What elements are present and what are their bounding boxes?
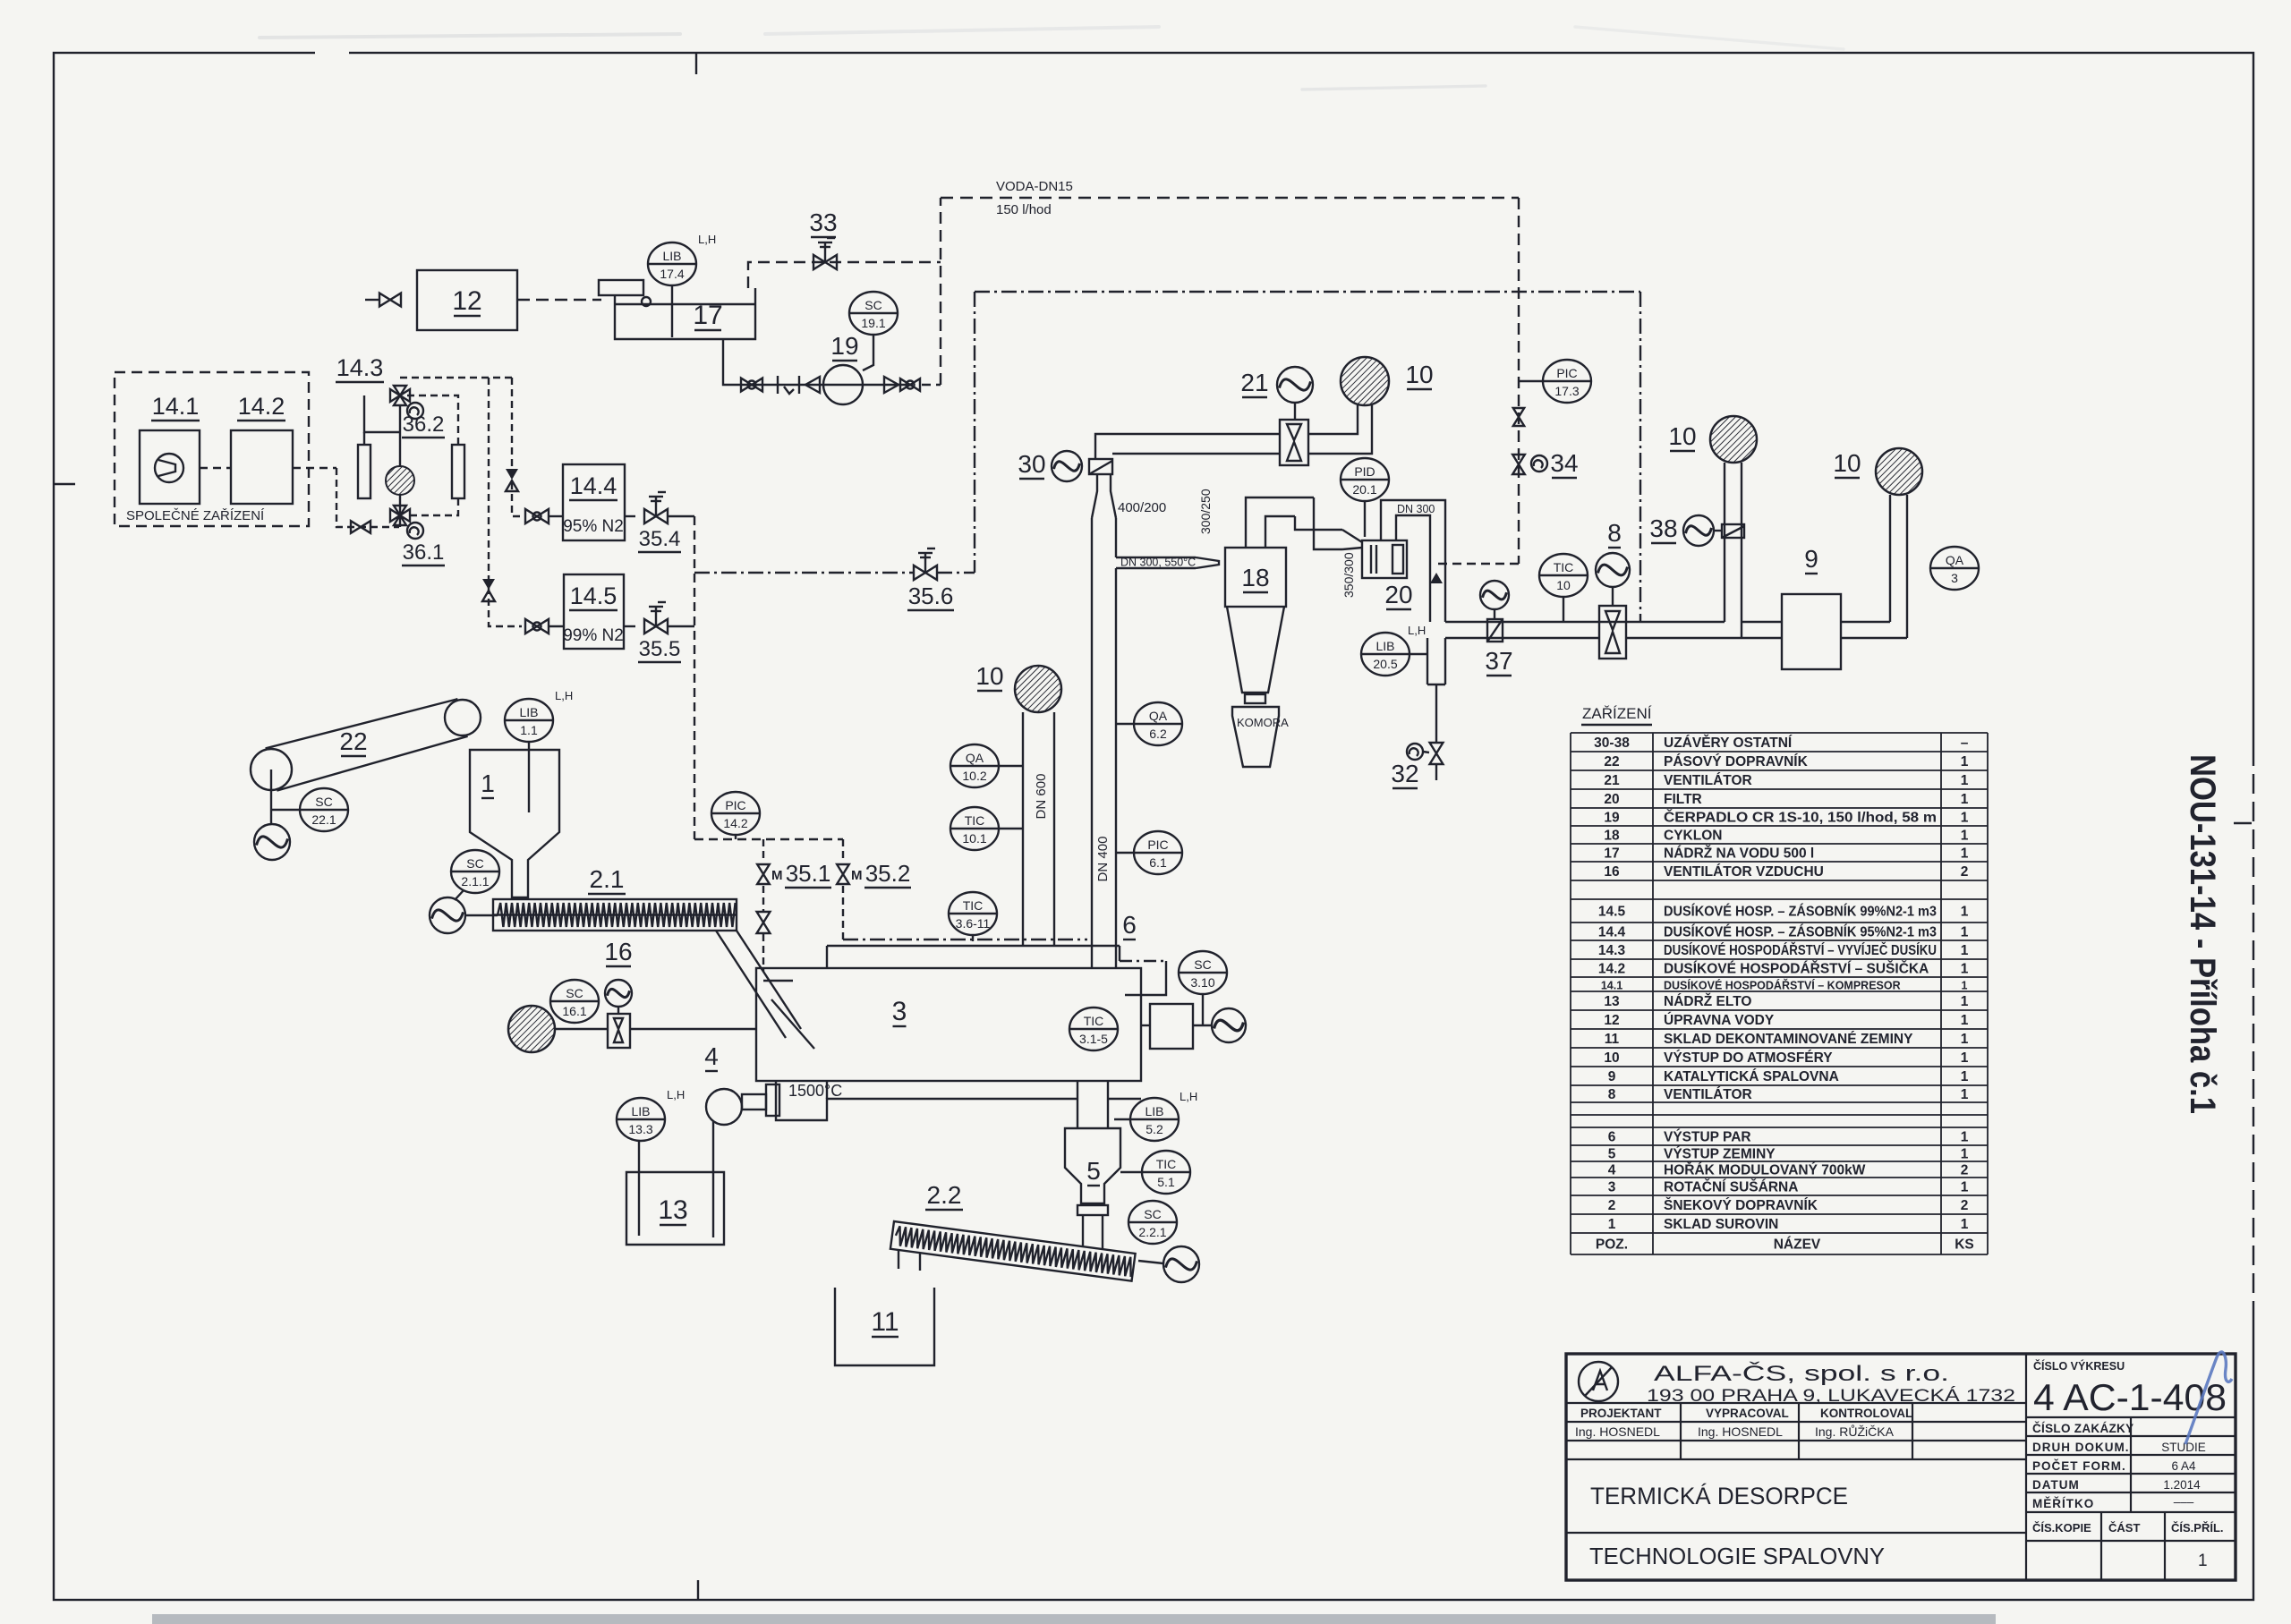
svg-text:19: 19 bbox=[1604, 811, 1620, 826]
label 10 (DN600) bbox=[975, 662, 1003, 691]
svg-text:4: 4 bbox=[704, 1042, 719, 1070]
instrument SC 3.10 (SC3.10) bbox=[1179, 951, 1227, 994]
svg-text:PIC: PIC bbox=[1556, 366, 1577, 380]
wire 35.4 to N2 main bbox=[668, 515, 694, 517]
blue pen mark bbox=[2185, 1352, 2232, 1444]
actuator motor 36.2 bbox=[407, 403, 423, 419]
svg-text:DUSÍKOVÉ HOSPODÁŘSTVÍ – VYVÍJE: DUSÍKOVÉ HOSPODÁŘSTVÍ – VYVÍJEČ DUSÍKU bbox=[1664, 942, 1937, 958]
svg-text:14.3: 14.3 bbox=[1598, 943, 1626, 958]
svg-text:DUSÍKOVÉ HOSP. – ZÁSOBNÍK 99%N: DUSÍKOVÉ HOSP. – ZÁSOBNÍK 99%N2-1 m3 bbox=[1664, 905, 1937, 920]
svg-text:VYPRACOVAL: VYPRACOVAL bbox=[1706, 1407, 1789, 1420]
wire header drop to 14.4 (dashed) bbox=[512, 378, 522, 516]
fan 8 inline box bbox=[1599, 606, 1626, 659]
svg-text:6.1: 6.1 bbox=[1149, 855, 1167, 870]
wire valve to 14.5 bbox=[549, 625, 564, 627]
wire PID 20.1 stub bbox=[1364, 501, 1366, 537]
svg-text:TIC: TIC bbox=[965, 813, 985, 828]
svg-text:16: 16 bbox=[604, 938, 632, 965]
bypass stack pipe bbox=[1725, 463, 1742, 638]
svg-text:PROJEKTANT: PROJEKTANT bbox=[1580, 1407, 1662, 1420]
svg-text:3.1-5: 3.1-5 bbox=[1079, 1032, 1108, 1046]
strainer on suction line bbox=[778, 376, 799, 394]
pipe 9 to final stack bbox=[1841, 495, 1907, 638]
dashed enclosure SPOLECNE ZARIZENI bbox=[115, 372, 309, 526]
control valve 35.4 bbox=[644, 492, 668, 523]
pipe pump suction line bbox=[734, 384, 823, 386]
valve pump suction valve bbox=[741, 378, 762, 392]
wire dryer to drive box bbox=[1141, 1025, 1150, 1026]
burner 4 bbox=[706, 1084, 779, 1125]
svg-text:L,H: L,H bbox=[698, 233, 716, 246]
instrument TIC 3.6-11 (TIC3.6-11) bbox=[949, 892, 997, 935]
svg-text:1: 1 bbox=[1961, 905, 1969, 920]
label 21 bbox=[1240, 369, 1268, 397]
label 10 (bypass) bbox=[1668, 422, 1696, 451]
dust chamber KOMORA bbox=[1232, 707, 1289, 767]
svg-text:2: 2 bbox=[1961, 1198, 1969, 1213]
svg-text:NÁDRŽ NA VODU 500 l: NÁDRŽ NA VODU 500 l bbox=[1664, 846, 1814, 862]
svg-text:ROTAČNÍ SUŠÁRNA: ROTAČNÍ SUŠÁRNA bbox=[1664, 1179, 1798, 1195]
wire SC 2.1.1 to drive bbox=[455, 890, 464, 900]
svg-text:300/250: 300/250 bbox=[1198, 489, 1213, 534]
label 11 bbox=[871, 1307, 899, 1337]
wire PIC 14.2 stub bbox=[735, 835, 737, 839]
svg-text:QA: QA bbox=[1946, 553, 1964, 567]
svg-text:VODA-DN15: VODA-DN15 bbox=[996, 179, 1073, 194]
filter hopper sump bbox=[1427, 638, 1445, 744]
reducer 400/200 bbox=[1092, 474, 1116, 518]
label 16 bbox=[604, 938, 632, 966]
svg-text:10: 10 bbox=[1604, 1050, 1619, 1066]
svg-text:12: 12 bbox=[452, 286, 481, 316]
svg-text:TIC: TIC bbox=[1554, 560, 1574, 574]
svg-text:1: 1 bbox=[481, 769, 495, 797]
svg-text:1: 1 bbox=[1961, 1032, 1969, 1047]
svg-text:SC: SC bbox=[566, 986, 583, 1000]
svg-text:2.2.1: 2.2.1 bbox=[1138, 1225, 1166, 1239]
rotary dryer 3 bbox=[756, 968, 1141, 1120]
instrument TIC 10 (TIC10) bbox=[1539, 554, 1588, 597]
svg-text:TERMICKÁ DESORPCE: TERMICKÁ DESORPCE bbox=[1590, 1483, 1848, 1509]
instrument LIB 13.3 (LIB13.3) bbox=[617, 1098, 665, 1141]
svg-text:1: 1 bbox=[1961, 773, 1969, 788]
pipe N2 35.6 riser (dash-dot) bbox=[974, 292, 975, 573]
wire into dryer left top (dashed) bbox=[762, 934, 764, 972]
pipe fuel line to burner bbox=[712, 1121, 714, 1237]
svg-text:14.2: 14.2 bbox=[238, 393, 285, 420]
pipe cyclone to filter 20 bbox=[1246, 497, 1362, 549]
svg-text:SKLAD SUROVIN: SKLAD SUROVIN bbox=[1664, 1217, 1778, 1232]
svg-text:37: 37 bbox=[1485, 647, 1512, 675]
svg-text:21: 21 bbox=[1240, 369, 1268, 396]
svg-text:16: 16 bbox=[1604, 864, 1620, 880]
wire TIC 10 stub bbox=[1563, 597, 1564, 622]
wire valve to 14.4 bbox=[549, 515, 563, 517]
label 38 bbox=[1649, 514, 1677, 543]
svg-text:DN 600: DN 600 bbox=[1034, 774, 1049, 820]
chute from screw 2.1 into dryer bbox=[716, 931, 814, 1049]
svg-text:ČÍS.KOPIE: ČÍS.KOPIE bbox=[2032, 1521, 2091, 1535]
label 35.2 bbox=[864, 860, 911, 888]
wire tank 17 vent to valve 33 (dashed) bbox=[748, 262, 941, 288]
svg-text:14.2: 14.2 bbox=[723, 816, 747, 830]
svg-text:LIB: LIB bbox=[662, 249, 681, 263]
4-way valve 36.2 bbox=[390, 386, 410, 405]
svg-text:ZAŘÍZENÍ: ZAŘÍZENÍ bbox=[1582, 705, 1652, 722]
svg-text:13: 13 bbox=[658, 1195, 687, 1225]
wire 14.5 to 35.5 bbox=[624, 625, 635, 627]
svg-text:10: 10 bbox=[1833, 449, 1861, 477]
svg-text:6: 6 bbox=[1608, 1130, 1616, 1145]
svg-text:SC: SC bbox=[315, 795, 332, 809]
svg-text:22: 22 bbox=[339, 727, 367, 755]
svg-text:1: 1 bbox=[1961, 829, 1969, 844]
label 35.6 bbox=[907, 582, 954, 610]
outlet to atmosphere outlet 10 bypass (hatched circle) bbox=[1710, 416, 1757, 463]
title block frame bbox=[1566, 1354, 2236, 1580]
valve valve left of 14.5 bbox=[525, 619, 549, 633]
svg-text:13.3: 13.3 bbox=[628, 1122, 652, 1136]
belt conveyor 22 bbox=[251, 699, 481, 790]
svg-text:11: 11 bbox=[1605, 1032, 1620, 1047]
svg-text:8: 8 bbox=[1607, 519, 1622, 547]
svg-text:LIB: LIB bbox=[519, 705, 538, 719]
svg-text:KATALYTICKÁ SPALOVNA: KATALYTICKÁ SPALOVNA bbox=[1664, 1069, 1839, 1084]
wire drive to screw axis bbox=[465, 914, 498, 916]
wire 35.6 to riser bbox=[937, 572, 975, 574]
svg-text:DUSÍKOVÉ HOSPODÁŘSTVÍ – KOMPRE: DUSÍKOVÉ HOSPODÁŘSTVÍ – KOMPRESOR bbox=[1664, 979, 1901, 992]
svg-text:36.2: 36.2 bbox=[403, 412, 445, 437]
valve isolation under 35.1 bbox=[757, 912, 771, 933]
label 14.2 bbox=[237, 393, 285, 421]
pipe water quench drop (dashed) bbox=[1518, 198, 1520, 564]
water tank 17 bbox=[599, 280, 755, 339]
valve valve under 14.3 bbox=[351, 521, 370, 533]
svg-text:1: 1 bbox=[1961, 811, 1969, 826]
svg-text:21: 21 bbox=[1604, 773, 1620, 788]
legs of screw 2.2 bbox=[899, 1251, 920, 1271]
dryer 14.2 bbox=[231, 430, 293, 504]
wire 14.2 to 14.3 (dashed) bbox=[293, 467, 336, 469]
wire SC 19.1 to pump bbox=[863, 335, 873, 370]
wire PIC 6.1 stub bbox=[1116, 852, 1134, 854]
svg-text:1.1: 1.1 bbox=[520, 723, 538, 737]
fan 8 bbox=[1596, 553, 1630, 587]
label 32 bbox=[1391, 760, 1418, 788]
equipment table ZARIZENI heading bbox=[1581, 705, 1652, 725]
svg-text:350/300: 350/300 bbox=[1341, 552, 1356, 598]
label 13 bbox=[658, 1195, 687, 1225]
actuator actuator 34 bbox=[1531, 455, 1547, 472]
svg-text:KONTROLOVAL: KONTROLOVAL bbox=[1820, 1407, 1912, 1420]
svg-text:3: 3 bbox=[892, 997, 907, 1026]
svg-text:8: 8 bbox=[1608, 1087, 1616, 1102]
valve 34 bbox=[1512, 455, 1525, 474]
svg-text:10: 10 bbox=[1668, 422, 1696, 450]
svg-text:10: 10 bbox=[1405, 361, 1433, 388]
svg-text:PÁSOVÝ DOPRAVNÍK: PÁSOVÝ DOPRAVNÍK bbox=[1664, 753, 1809, 769]
svg-text:ŠNEKOVÝ DOPRAVNÍK: ŠNEKOVÝ DOPRAVNÍK bbox=[1664, 1197, 1818, 1213]
svg-text:ČÁST: ČÁST bbox=[2108, 1521, 2140, 1535]
svg-text:DATUM: DATUM bbox=[2032, 1478, 2080, 1492]
svg-text:2.2: 2.2 bbox=[927, 1181, 962, 1209]
wire discharge to riser (dashed) bbox=[922, 384, 941, 386]
fan drive of screw 2.2 bbox=[1163, 1246, 1199, 1282]
svg-text:FILTR: FILTR bbox=[1664, 792, 1702, 807]
equipment table grid and rows bbox=[1571, 733, 1988, 1254]
label 35.1 bbox=[785, 860, 831, 888]
svg-text:17.3: 17.3 bbox=[1554, 384, 1579, 398]
svg-text:14.1: 14.1 bbox=[1601, 980, 1622, 992]
fan drive of 22 bbox=[254, 824, 290, 860]
wire drop to 35.2 (dashed) bbox=[842, 839, 844, 861]
pipe N2 distribution header (dashed) bbox=[694, 838, 843, 840]
pipe pump discharge bbox=[863, 384, 913, 386]
svg-text:1: 1 bbox=[1961, 1050, 1969, 1066]
fan 21 bbox=[1277, 367, 1313, 403]
label 9 bbox=[1804, 545, 1818, 574]
wire fan 21 stub bbox=[1294, 403, 1296, 420]
svg-text:ČERPADLO CR 1S-10, 150 l/hod,: ČERPADLO CR 1S-10, 150 l/hod, 58 m bbox=[1664, 810, 1937, 826]
outlet to atmosphere air intake 16 (hatched circle) bbox=[508, 1006, 555, 1052]
outlet to atmosphere outlet 10 final (hatched circle) bbox=[1876, 448, 1922, 495]
svg-text:STUDIE: STUDIE bbox=[2161, 1441, 2206, 1454]
svg-text:1: 1 bbox=[1608, 1217, 1616, 1232]
svg-text:99% N2: 99% N2 bbox=[563, 626, 624, 645]
svg-text:14.2: 14.2 bbox=[1598, 962, 1625, 977]
decontaminated soil store 11 bbox=[835, 1288, 934, 1365]
svg-text:5.1: 5.1 bbox=[1157, 1175, 1175, 1189]
inline damper 37 bbox=[1487, 619, 1503, 642]
wire tank 17 outlet down bbox=[723, 339, 734, 385]
label 37 bbox=[1485, 647, 1512, 676]
svg-text:VÝSTUP ZEMINY: VÝSTUP ZEMINY bbox=[1664, 1146, 1776, 1162]
svg-text:QA: QA bbox=[1149, 709, 1168, 723]
fan 38 bbox=[1683, 515, 1714, 546]
label 33 bbox=[809, 208, 837, 237]
4-way valve 36.1 bbox=[390, 506, 410, 525]
motor valve 35.2 bbox=[837, 864, 862, 884]
svg-text:DRUH DOKUM.: DRUH DOKUM. bbox=[2032, 1441, 2130, 1454]
screw conveyor 2.1 bbox=[493, 899, 737, 931]
label 30 bbox=[1018, 450, 1045, 479]
wire QA 10.2 stub bbox=[999, 765, 1023, 767]
svg-text:1: 1 bbox=[1961, 925, 1969, 940]
nozzle tick inside dryer bbox=[763, 980, 793, 982]
svg-text:22.1: 22.1 bbox=[311, 812, 336, 827]
fan 21 inline box bbox=[1280, 420, 1308, 465]
wire stub left of 12 bbox=[365, 299, 379, 301]
label 12 bbox=[452, 286, 481, 316]
compressor 14.1 bbox=[140, 430, 200, 504]
wire actuator to valve 32 bbox=[1423, 752, 1429, 752]
svg-text:L,H: L,H bbox=[1180, 1090, 1197, 1103]
svg-text:LIB: LIB bbox=[1375, 639, 1394, 653]
pipe main flue line bbox=[1445, 622, 1782, 638]
svg-text:DN 300: DN 300 bbox=[1397, 503, 1435, 515]
svg-text:ČÍSLO VÝKRESU: ČÍSLO VÝKRESU bbox=[2033, 1359, 2125, 1373]
N2 storage 14.5 bbox=[564, 574, 624, 649]
svg-text:VENTILÁTOR: VENTILÁTOR bbox=[1664, 1087, 1752, 1102]
title block texts bbox=[1575, 1359, 2227, 1570]
wire LIB 13.3 probe bbox=[638, 1141, 640, 1236]
instrument TIC 5.1 (TIC5.1) bbox=[1142, 1151, 1190, 1194]
svg-text:L,H: L,H bbox=[1408, 624, 1426, 637]
damper of fan 16 bbox=[608, 1014, 630, 1048]
label 14.1 bbox=[151, 393, 200, 421]
instrument LIB 17.4 (LIB17.4) bbox=[648, 242, 696, 285]
svg-text:SC: SC bbox=[1144, 1207, 1161, 1221]
svg-text:MĚŘÍTKO: MĚŘÍTKO bbox=[2032, 1497, 2094, 1510]
svg-text:QA: QA bbox=[966, 751, 984, 765]
svg-text:6.2: 6.2 bbox=[1149, 727, 1167, 741]
svg-text:35.5: 35.5 bbox=[639, 637, 681, 661]
svg-text:TIC: TIC bbox=[963, 898, 984, 913]
svg-text:1: 1 bbox=[1962, 980, 1968, 992]
svg-text:14.5: 14.5 bbox=[570, 582, 617, 609]
label 17 bbox=[693, 301, 722, 330]
svg-text:DN 300, 550°C: DN 300, 550°C bbox=[1120, 557, 1196, 569]
svg-text:20.1: 20.1 bbox=[1352, 482, 1376, 497]
svg-text:L,H: L,H bbox=[667, 1088, 685, 1101]
wire QA 6.2 stub bbox=[1116, 723, 1134, 725]
stack DN400 riser bbox=[1092, 518, 1116, 968]
svg-text:CYKLON: CYKLON bbox=[1664, 829, 1722, 844]
fan dryer drive 3.10 bbox=[1212, 1008, 1246, 1042]
instrument SC 16.1 (SC16.1) bbox=[550, 980, 599, 1023]
svg-text:1.2014: 1.2014 bbox=[2163, 1478, 2201, 1492]
svg-text:17: 17 bbox=[1604, 846, 1619, 862]
check valve in DN300 drop bbox=[1430, 573, 1443, 583]
pipe from N2 header to 35.6 (dash-dot) bbox=[694, 572, 915, 574]
wire LIB 5.2 stub bbox=[1114, 1118, 1131, 1120]
svg-text:M: M bbox=[851, 868, 863, 883]
svg-text:1: 1 bbox=[1961, 1087, 1969, 1102]
svg-text:PIC: PIC bbox=[1147, 838, 1168, 852]
instrument SC 2.1.1 (SC2.1.1) bbox=[451, 850, 499, 893]
instrument SC 2.2.1 (SC2.2.1) bbox=[1128, 1201, 1177, 1244]
svg-text:SC: SC bbox=[466, 856, 483, 871]
wire 12 to tank 17 (dashed) bbox=[517, 299, 601, 301]
valve needle valve in quench bbox=[1513, 408, 1524, 426]
wire 14.4 to 35.4 bbox=[625, 515, 635, 517]
svg-text:6 A4: 6 A4 bbox=[2171, 1459, 2196, 1473]
pipe intake to damper bbox=[555, 1028, 608, 1030]
control valve 33 bbox=[813, 238, 837, 269]
soil outlet hopper 5 bbox=[1065, 1128, 1120, 1248]
svg-text:VENTILÁTOR VZDUCHU: VENTILÁTOR VZDUCHU bbox=[1664, 864, 1824, 880]
check valve above 14.4 bbox=[506, 469, 518, 491]
svg-text:UZÁVĚRY OSTATNÍ: UZÁVĚRY OSTATNÍ bbox=[1664, 735, 1793, 751]
svg-text:3: 3 bbox=[1608, 1180, 1616, 1195]
svg-text:400/200: 400/200 bbox=[1118, 500, 1166, 515]
svg-text:1: 1 bbox=[1961, 1130, 1969, 1145]
svg-text:20: 20 bbox=[1384, 581, 1412, 608]
svg-text:13: 13 bbox=[1604, 994, 1620, 1009]
instrument PID 20.1 (PID20.1) bbox=[1341, 458, 1389, 501]
svg-text:1: 1 bbox=[1961, 962, 1969, 977]
svg-text:2.1.1: 2.1.1 bbox=[461, 874, 489, 889]
fuel tank 13 bbox=[626, 1172, 724, 1245]
svg-text:36.1: 36.1 bbox=[403, 540, 445, 565]
wire quench into DN300 drop (dashed) bbox=[1436, 563, 1519, 565]
svg-text:–––: ––– bbox=[2174, 1495, 2194, 1509]
instrument QA 6.2 (QA6.2) bbox=[1134, 702, 1182, 745]
steam duct 6 above dryer bbox=[827, 946, 1166, 995]
motor valve 35.1 bbox=[757, 864, 782, 884]
svg-text:20: 20 bbox=[1604, 792, 1619, 807]
instrument QA 10.2 (QA10.2) bbox=[950, 744, 999, 787]
svg-text:35.1: 35.1 bbox=[786, 860, 831, 887]
label 14.5 bbox=[569, 582, 617, 610]
outlet to atmosphere outlet 10 over fan 21 (hatched circle) bbox=[1341, 357, 1389, 405]
svg-text:35.6: 35.6 bbox=[908, 582, 954, 609]
svg-text:30-38: 30-38 bbox=[1594, 735, 1630, 751]
svg-text:NÁDRŽ ELTO: NÁDRŽ ELTO bbox=[1664, 993, 1751, 1009]
label 8 bbox=[1607, 519, 1622, 548]
svg-text:VÝSTUP PAR: VÝSTUP PAR bbox=[1664, 1129, 1751, 1145]
catalytic burner 9 bbox=[1782, 594, 1841, 669]
wire SC 22.1 stub bbox=[271, 809, 300, 811]
pipe DN300 550C to cyclone bbox=[1116, 557, 1219, 568]
label 3 bbox=[892, 997, 907, 1026]
label 34 bbox=[1550, 449, 1578, 478]
svg-text:2: 2 bbox=[1961, 1163, 1969, 1178]
svg-text:1: 1 bbox=[1961, 1013, 1969, 1028]
instrument SC 22.1 (SC22.1) bbox=[300, 788, 348, 831]
svg-text:1: 1 bbox=[1961, 792, 1969, 807]
svg-text:1: 1 bbox=[1961, 943, 1969, 958]
label 2.2 bbox=[925, 1181, 963, 1210]
nitrogen generator 14.3 assembly bbox=[336, 395, 464, 527]
pipe filter outlet DN300 bbox=[1381, 500, 1445, 622]
svg-text:5.2: 5.2 bbox=[1145, 1122, 1163, 1136]
stack DN600 to atmosphere bbox=[1023, 712, 1054, 946]
svg-text:Ing. HOSNEDL: Ing. HOSNEDL bbox=[1698, 1424, 1783, 1439]
instrument TIC 10.1 (TIC10.1) bbox=[950, 807, 999, 850]
drive box of dryer 3 (right side) bbox=[1150, 1004, 1193, 1049]
svg-text:KS: KS bbox=[1955, 1237, 1974, 1253]
instrument PIC 14.2 (PIC14.2) bbox=[711, 792, 760, 835]
wire TIC 5.1 stub bbox=[1120, 1171, 1143, 1173]
svg-text:4: 4 bbox=[1608, 1163, 1616, 1178]
outlet to atmosphere outlet 10 over DN600 (hatched circle) bbox=[1015, 666, 1061, 712]
wire 35.1 lower (dashed) bbox=[762, 886, 764, 911]
svg-text:95% N2: 95% N2 bbox=[563, 517, 624, 536]
wire TIC 10.1 stub bbox=[999, 828, 1023, 829]
pipe N2 line 35.6 (dash-dot) bbox=[975, 291, 1640, 293]
damper 38 on bypass bbox=[1714, 524, 1744, 538]
svg-text:DN 400: DN 400 bbox=[1095, 837, 1111, 882]
svg-text:ČÍS.PŘÍL.: ČÍS.PŘÍL. bbox=[2171, 1521, 2224, 1535]
cyclone 18 bbox=[1225, 548, 1286, 703]
wire 14.3 to storage headers (dashed) bbox=[400, 377, 512, 378]
svg-text:ALFA-ČS, spol. s r.o.: ALFA-ČS, spol. s r.o. bbox=[1654, 1361, 1949, 1386]
wire drop to 35.1 (dashed) bbox=[762, 839, 764, 861]
svg-text:L,H: L,H bbox=[555, 689, 573, 702]
valve 32 bbox=[1430, 743, 1444, 764]
svg-text:2.1: 2.1 bbox=[590, 865, 625, 893]
svg-text:NOU-131-14 - Příloha č.1: NOU-131-14 - Příloha č.1 bbox=[2183, 754, 2222, 1114]
svg-text:9: 9 bbox=[1608, 1069, 1616, 1084]
svg-text:NÁZEV: NÁZEV bbox=[1774, 1237, 1821, 1253]
label 4 bbox=[704, 1042, 719, 1071]
svg-text:19.1: 19.1 bbox=[861, 316, 885, 330]
instrument QA 3 (QA3) bbox=[1930, 547, 1979, 590]
svg-text:14.4: 14.4 bbox=[570, 472, 617, 499]
water treatment unit 12 bbox=[417, 270, 517, 330]
label 36.2 bbox=[402, 412, 445, 438]
